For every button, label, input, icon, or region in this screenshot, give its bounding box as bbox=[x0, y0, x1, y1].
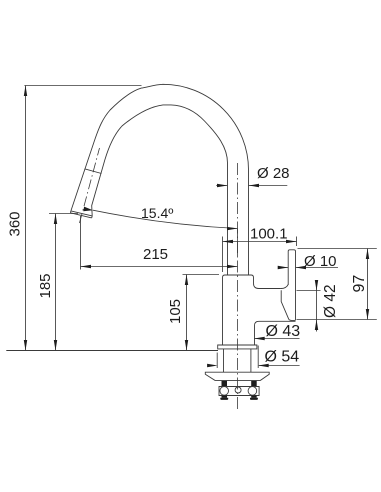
lever handle bbox=[288, 250, 295, 320]
bracket left ring bbox=[220, 387, 229, 396]
bracket center hole bbox=[235, 387, 241, 393]
svg-text:Ø 28: Ø 28 bbox=[257, 165, 290, 182]
arrow Ø28 right bbox=[249, 184, 260, 187]
lever cone bottom bbox=[289, 319, 296, 322]
arrow 215 left bbox=[81, 265, 92, 268]
threaded stud left upper bbox=[222, 381, 228, 387]
dim Ø28 line bbox=[216, 185, 287, 187]
dim 100.1 line bbox=[223, 241, 297, 243]
mounting wedge plate bbox=[205, 372, 269, 380]
threaded stud right lower bbox=[251, 396, 257, 398]
svg-text:Ø 42: Ø 42 bbox=[322, 284, 339, 318]
arrow 185 top bbox=[54, 214, 57, 225]
dim 360 line bbox=[25, 86, 27, 351]
arrow 105 bottom bbox=[185, 340, 188, 351]
spout inner edge bbox=[92, 105, 228, 275]
threaded stud right upper bbox=[251, 381, 257, 387]
arrow 185 bottom bbox=[54, 340, 57, 351]
nozzle tip end cap bbox=[70, 211, 92, 218]
arrow 100.1 left bbox=[223, 240, 234, 243]
svg-text:360: 360 bbox=[7, 211, 24, 236]
arrow 215 right bbox=[227, 265, 238, 268]
dim 105 line bbox=[186, 275, 188, 351]
leader Ø54 extension right bbox=[257, 346, 259, 369]
arrow angle end bbox=[227, 227, 238, 230]
spray head joint line bbox=[85, 169, 102, 174]
arrow leader Ø54 left bbox=[207, 364, 218, 367]
arrow leader Ø43 bbox=[254, 337, 265, 340]
mounting shank right edge bbox=[250, 349, 252, 372]
arrow 360 top bbox=[24, 86, 27, 97]
arrow 97 bottom bbox=[366, 309, 369, 320]
countertop baseline bbox=[6, 350, 218, 352]
arrow 97 top bbox=[366, 249, 369, 260]
angle arc 15.4 bbox=[93, 210, 238, 228]
lever cone left edge bbox=[281, 290, 289, 319]
mounting bracket band bbox=[219, 387, 259, 396]
nozzle tip face upper line bbox=[71, 211, 92, 216]
body outline bbox=[223, 275, 281, 345]
nozzle tip face lower line bbox=[70, 213, 91, 218]
nozzle centerline bbox=[80, 148, 100, 223]
leader Ø54 line bbox=[259, 365, 300, 367]
svg-text:Ø 10: Ø 10 bbox=[304, 253, 337, 270]
dim 100.1 extension left bbox=[222, 237, 224, 273]
svg-text:Ø 43: Ø 43 bbox=[266, 323, 301, 340]
arrow 105 top bbox=[185, 275, 188, 286]
arrow Ø28 left bbox=[217, 184, 228, 187]
body arm fillet to lever bbox=[281, 284, 288, 288]
arrow Ø10 right bbox=[296, 266, 307, 269]
body shelf under lever bbox=[255, 321, 296, 345]
arrow 360 bottom bbox=[24, 340, 27, 351]
stud nut left bbox=[220, 398, 228, 400]
dim Ø42 line bbox=[316, 282, 318, 332]
escutcheon disc Ø54 bbox=[218, 345, 257, 349]
dim 215 line bbox=[81, 266, 238, 268]
svg-text:215: 215 bbox=[143, 246, 168, 263]
svg-text:97: 97 bbox=[351, 275, 368, 293]
arrow leader Ø54 right bbox=[258, 364, 269, 367]
dim 100.1 extension right bbox=[296, 237, 298, 247]
svg-text:100.1: 100.1 bbox=[250, 226, 288, 243]
bracket right ring bbox=[248, 387, 257, 396]
leader Ø43 line bbox=[254, 338, 299, 340]
dim 97 line bbox=[367, 249, 369, 320]
dim Ø10 line bbox=[278, 267, 338, 269]
arrow Ø42 top bbox=[315, 280, 318, 291]
dim 215 extension line bbox=[80, 216, 82, 270]
stud nut right bbox=[250, 398, 258, 400]
svg-text:185: 185 bbox=[37, 273, 54, 298]
leader Ø54 extension left bbox=[216, 353, 218, 369]
arrow angle start bbox=[83, 207, 93, 212]
svg-text:Ø 54: Ø 54 bbox=[265, 349, 300, 366]
svg-text:15.4º: 15.4º bbox=[141, 205, 173, 221]
spout outer edge bbox=[71, 84, 249, 275]
arrow 100.1 right bbox=[286, 240, 297, 243]
mounting shank left edge bbox=[223, 349, 225, 372]
threaded stud left lower bbox=[222, 396, 228, 398]
svg-text:105: 105 bbox=[167, 299, 184, 324]
dim Ø42 extension top bbox=[297, 290, 321, 292]
arrow Ø10 left bbox=[278, 266, 289, 269]
dim 185 extension line top bbox=[49, 213, 78, 215]
pipe centerline bbox=[237, 163, 239, 412]
dim 360 extension line top bbox=[24, 85, 141, 87]
dim 105 extension line top bbox=[183, 274, 220, 276]
dim 97 extension top bbox=[298, 248, 377, 250]
dim 97/Ø42 extension bottom bbox=[297, 319, 377, 321]
arrow Ø42 bottom bbox=[315, 320, 318, 331]
pipe centerline solid segment bbox=[237, 229, 239, 257]
dim 185 line bbox=[55, 214, 57, 351]
